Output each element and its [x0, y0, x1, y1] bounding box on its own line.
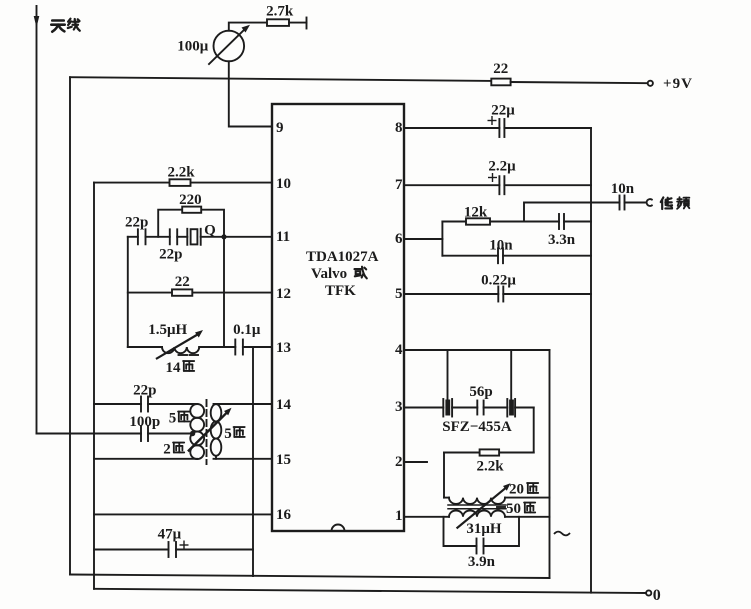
- wire outer left rail: [69, 77, 71, 574]
- svg-text:Valvo: Valvo: [311, 266, 347, 282]
- wire pin3 corner down: [533, 408, 535, 453]
- svg-text:TFK: TFK: [325, 283, 356, 299]
- capacitor 22p first: [138, 229, 170, 244]
- svg-text:9: 9: [276, 120, 284, 136]
- transformer T1 tuning arrow: [189, 408, 232, 451]
- resistor 2.2k (pin10): [170, 179, 191, 186]
- svg-text:5: 5: [395, 286, 403, 302]
- svg-text:14: 14: [276, 397, 292, 413]
- capacitor 10n (AF out): [620, 196, 646, 210]
- wire 3.9n loop: [444, 517, 477, 546]
- plus sign 22u: [488, 116, 497, 125]
- svg-text:20: 20: [509, 482, 524, 498]
- wire 12k branch: [442, 221, 559, 223]
- svg-text:22p: 22p: [159, 246, 182, 262]
- svg-text:12k: 12k: [464, 205, 488, 221]
- capacitor 3.9n: [477, 517, 520, 554]
- svg-text:5: 5: [224, 426, 232, 442]
- transformer T2 primary winding 20 turns: [444, 498, 550, 504]
- capacitor 56p: [477, 401, 507, 415]
- svg-text:220: 220: [179, 192, 202, 208]
- capacitor 0.22u: [498, 287, 591, 302]
- svg-text:Q: Q: [204, 223, 216, 239]
- svg-text:3.3n: 3.3n: [548, 232, 576, 248]
- wire pin7 line: [404, 184, 499, 186]
- wire 10n branch: [442, 255, 498, 257]
- wire 47u line: [94, 549, 169, 551]
- wire pin2 stub: [404, 461, 427, 463]
- inductor 1.5uH: [157, 330, 235, 358]
- antenna lead wire: [36, 6, 38, 434]
- wire pin16 line: [94, 513, 272, 515]
- resistor 2.2k (IF): [480, 449, 500, 455]
- svg-text:12: 12: [276, 286, 291, 302]
- IC notch: [332, 525, 345, 531]
- plus sign 47u: [180, 541, 189, 550]
- svg-text:0: 0: [653, 587, 661, 604]
- svg-text:SFZ−455A: SFZ−455A: [442, 419, 512, 435]
- capacitor 3.3n: [559, 214, 591, 229]
- svg-text:+9V: +9V: [663, 76, 693, 92]
- wire 2.2k to primary: [443, 453, 445, 498]
- capacitor 47u: [169, 542, 254, 557]
- svg-text:10n: 10n: [611, 181, 635, 197]
- wire 2.2k line: [444, 452, 534, 454]
- label ~: [554, 532, 570, 536]
- svg-text:100p: 100p: [129, 414, 160, 430]
- wire pin12 line: [128, 292, 272, 294]
- resistor 22 (pin12): [172, 289, 192, 295]
- antenna arrow: [34, 16, 40, 28]
- svg-text:2.7k: 2.7k: [266, 3, 294, 19]
- svg-text:2: 2: [395, 454, 403, 470]
- terminal 0: [646, 590, 651, 595]
- plus sign 2.2u: [488, 173, 497, 182]
- transformer T2 secondary winding 50 turns: [449, 510, 550, 516]
- wire meter bottom to pin 9: [229, 61, 272, 126]
- wire meter top to 2.7k: [229, 23, 267, 31]
- wire bottom rail lower (0V): [94, 589, 646, 593]
- IC label Valvo 或: [311, 266, 367, 282]
- wire pin8 line: [404, 127, 499, 129]
- wire pin15 line left: [94, 458, 197, 460]
- wire inner left rail: [93, 183, 95, 589]
- wire pin14 line left: [94, 403, 141, 405]
- resistor 22 (supply): [491, 79, 647, 86]
- terminal AF output: [647, 199, 652, 206]
- svg-text:2: 2: [163, 442, 171, 458]
- svg-text:10n: 10n: [489, 238, 513, 254]
- wire pin1 line: [404, 516, 449, 518]
- resonator SFZ-455A element 2: [507, 399, 533, 417]
- svg-text:6: 6: [395, 231, 403, 247]
- wire AF takeoff: [524, 203, 620, 222]
- svg-text:13: 13: [276, 340, 291, 356]
- svg-text:22p: 22p: [133, 383, 156, 399]
- wire pin3 line: [404, 407, 443, 409]
- capacitor 10n (pin6): [498, 248, 591, 263]
- svg-text:4: 4: [395, 342, 403, 358]
- wire crystal net left rail: [127, 237, 129, 347]
- IC U1 TDA1027A body: [272, 104, 404, 531]
- capacitor 0.1u: [235, 340, 272, 355]
- wire bottom rail upper: [70, 575, 550, 579]
- label 5匝 right: [224, 426, 244, 442]
- capacitor 22p (pin14): [141, 397, 197, 412]
- wire pin5 line: [404, 293, 498, 295]
- resistor 12k: [466, 218, 490, 224]
- label 低频: [661, 197, 690, 209]
- svg-text:0.1μ: 0.1μ: [233, 322, 261, 338]
- svg-text:22μ: 22μ: [491, 103, 515, 119]
- wire resonator lead 2: [510, 350, 512, 400]
- wire junction vertical V2: [223, 237, 225, 347]
- terminal +9V: [648, 81, 653, 86]
- label 5匝 left: [169, 411, 189, 427]
- wire pin4 right vertical: [549, 350, 551, 578]
- wire 220 bypass branch: [158, 210, 224, 237]
- label 天线: [51, 19, 80, 32]
- wire pin10 line: [94, 182, 272, 184]
- wire crystal line: [128, 236, 138, 238]
- terminal bar 2.7k: [306, 18, 308, 29]
- svg-text:16: 16: [276, 507, 292, 523]
- resistor 2.7k: [267, 19, 307, 26]
- svg-text:15: 15: [276, 452, 291, 468]
- label 50匝: [506, 501, 535, 517]
- label 14匝: [166, 360, 195, 376]
- svg-text:22: 22: [493, 61, 508, 77]
- wire pin6 fork vertical: [441, 222, 443, 256]
- transformer T2 core: [448, 505, 506, 509]
- svg-text:11: 11: [276, 229, 290, 245]
- svg-text:22: 22: [175, 274, 190, 290]
- svg-text:2.2k: 2.2k: [167, 164, 195, 180]
- wire ground vertical V1: [252, 347, 254, 576]
- transformer T1 core: [206, 400, 208, 464]
- capacitor 22p second: [170, 229, 188, 244]
- capacitor 22u: [499, 119, 591, 137]
- wire pin13 line left: [128, 346, 162, 348]
- svg-text:3.9n: 3.9n: [468, 554, 496, 570]
- transformer T1 secondary winding: [211, 404, 222, 459]
- crystal Q1: [187, 229, 272, 245]
- wire pin6 stub: [404, 238, 442, 240]
- svg-text:50: 50: [506, 501, 521, 517]
- svg-text:1: 1: [395, 508, 403, 524]
- svg-text:100μ: 100μ: [177, 39, 209, 55]
- svg-text:47μ: 47μ: [158, 527, 182, 543]
- resistor 220: [182, 207, 201, 213]
- wire antenna to 100p: [37, 433, 142, 435]
- wire pin14 line right: [214, 403, 273, 405]
- node crystal junction: [221, 234, 226, 239]
- capacitor 2.2u: [499, 176, 591, 194]
- meter M 100uA: [209, 25, 250, 64]
- svg-text:TDA1027A: TDA1027A: [306, 249, 379, 265]
- label pointer 50 turns: [497, 506, 505, 508]
- label 2匝: [163, 442, 184, 458]
- wire pin4 line: [404, 349, 550, 351]
- svg-text:5: 5: [169, 411, 177, 427]
- svg-text:31μH: 31μH: [466, 521, 502, 537]
- transformer T1 primary winding: [190, 404, 204, 459]
- svg-text:1.5μH: 1.5μH: [148, 322, 187, 338]
- svg-text:8: 8: [395, 120, 403, 136]
- svg-text:14: 14: [166, 360, 182, 376]
- svg-text:3: 3: [395, 399, 403, 415]
- node transformer tap: [190, 431, 195, 436]
- svg-text:2.2k: 2.2k: [476, 459, 504, 475]
- label 20匝: [509, 482, 538, 498]
- wire pin15 line right: [214, 458, 273, 460]
- svg-text:22p: 22p: [125, 215, 148, 231]
- svg-text:2.2μ: 2.2μ: [488, 159, 516, 175]
- svg-text:56p: 56p: [469, 384, 492, 400]
- wire resonator lead 1: [447, 350, 449, 400]
- capacitor 100p: [141, 426, 193, 441]
- svg-text:0.22μ: 0.22μ: [481, 273, 516, 289]
- resonator SFZ-455A element 1: [443, 399, 477, 417]
- transformer T2 tuning arrow: [457, 483, 510, 528]
- wire right bus: [590, 128, 592, 593]
- svg-text:10: 10: [276, 176, 291, 192]
- svg-text:7: 7: [395, 177, 403, 193]
- wire +9V top rail: [70, 77, 491, 81]
